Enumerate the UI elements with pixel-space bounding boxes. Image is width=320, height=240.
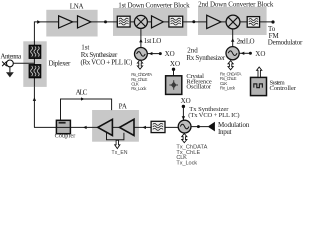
arrow right ALC: [81, 97, 85, 100]
junction dot after LNA: [104, 20, 107, 23]
svg-text:Rx_Lock: Rx_Lock: [131, 86, 147, 91]
arrow into LNA: [37, 20, 40, 24]
node dot XO crystal top: [172, 68, 175, 71]
2nd Down Converter Block box: [198, 7, 267, 35]
LNA block box: [46, 10, 97, 37]
arrow left into PA: [142, 126, 146, 129]
2nd Rx synthesizer VCO: [226, 47, 239, 60]
svg-text:Antenna: Antenna: [0, 52, 22, 60]
filter F2 1st converter output: [169, 16, 183, 27]
diplexer filter lower: [29, 65, 41, 78]
PA block box: [92, 110, 139, 142]
svg-text:Oscillator: Oscillator: [186, 84, 211, 91]
filter F3 2nd converter output: [247, 17, 259, 28]
coupler: [56, 120, 70, 133]
signal labels 1st Rx synth: [131, 72, 153, 91]
arrow up Tx into diplexer: [33, 97, 36, 101]
svg-text:XO: XO: [181, 97, 191, 105]
PA amplifier stage 1: [98, 119, 113, 135]
svg-text:(Tx VCO + PLL IC): (Tx VCO + PLL IC): [188, 112, 239, 119]
wire: 2nd LO mixer to synth: [232, 29, 234, 47]
wire: Tx VCO to modulation input: [191, 126, 208, 128]
svg-text:(Rx VCO + PLL IC): (Rx VCO + PLL IC): [81, 59, 134, 67]
wire: Rx main line diplexer-top to demodulator: [34, 22, 273, 42]
svg-text:LNA: LNA: [70, 3, 84, 11]
svg-text:PA: PA: [119, 103, 127, 111]
filter F1 1st converter input: [117, 16, 130, 27]
svg-text:Input: Input: [218, 128, 232, 136]
arrow left XO into 1st synth: [149, 52, 153, 55]
wire: XO stub above crystal: [173, 70, 175, 76]
node dot XO 2nd synth: [249, 52, 252, 55]
system controller box: [251, 77, 267, 95]
open double arrow under Tx synth: [182, 134, 187, 143]
svg-text:XO: XO: [165, 50, 175, 58]
Diplexer block box: [23, 41, 46, 87]
arrow left XO into 2nd synth: [241, 52, 245, 55]
wire: PA bias loop: [107, 132, 124, 140]
svg-text:Tx_Lock: Tx_Lock: [176, 161, 197, 166]
mixer 1st converter: [134, 15, 147, 28]
amplifier LNA stage 1: [59, 16, 73, 28]
PA amplifier stage 2: [120, 119, 135, 135]
wire: XO stub of 1st Rx synthesizer: [147, 53, 160, 55]
svg-text:1st LO: 1st LO: [144, 37, 162, 45]
svg-text:Coupler: Coupler: [55, 133, 76, 139]
diplexer filter upper: [29, 45, 41, 58]
wire: XO stub into Tx synthesizer: [182, 107, 184, 121]
wire: Tx vertical coupler to diplexer: [33, 87, 35, 128]
svg-text:2nd LO: 2nd LO: [237, 37, 255, 45]
arrow up 1st LO: [139, 39, 142, 43]
mixer 2nd converter: [226, 15, 240, 29]
amplifier 2nd converter: [207, 15, 221, 28]
junction dot after 1st block: [192, 20, 195, 23]
wire: antenna to diplexer: [13, 62, 34, 64]
signal labels 2nd Rx synth: [220, 72, 243, 91]
svg-text:2nd Down Converter Block: 2nd Down Converter Block: [198, 0, 274, 8]
svg-text:Rx Synthesizer: Rx Synthesizer: [186, 54, 225, 62]
svg-text:1st Down Converter Block: 1st Down Converter Block: [118, 1, 190, 9]
svg-text:XO: XO: [170, 60, 180, 68]
signal labels Tx synth: [176, 144, 207, 166]
antenna X feed: [2, 62, 7, 67]
svg-text:Controller: Controller: [270, 85, 297, 92]
wire: ALC feedback coupler to PA: [61, 99, 112, 120]
svg-text:Rx_Lock: Rx_Lock: [220, 86, 236, 91]
svg-text:Diplexer: Diplexer: [49, 60, 71, 68]
1st Down Converter Block box: [113, 8, 187, 36]
open up arrow above system controller: [257, 67, 262, 77]
arrow left coupler direction: [83, 126, 87, 129]
antenna circle: [6, 60, 13, 67]
svg-text:Tx_EN: Tx_EN: [112, 150, 128, 156]
amplifier 1st converter: [152, 16, 164, 28]
arrow up 2nd LO: [231, 38, 234, 42]
open down arrow Tx_EN: [115, 140, 120, 148]
node dot to FM demodulator: [271, 20, 274, 23]
arrow down XO into Tx synth: [182, 116, 185, 120]
open double arrow under 1st synth: [137, 60, 142, 69]
svg-text:ALC: ALC: [76, 89, 88, 97]
svg-text:Demodulator: Demodulator: [268, 38, 303, 46]
svg-text:XO: XO: [255, 50, 265, 58]
node dot modulation line: [197, 125, 200, 128]
open double arrow under 2nd synth: [228, 61, 233, 70]
1st Rx synthesizer VCO: [135, 48, 148, 61]
Tx VCO: [178, 120, 191, 133]
modulation input arrow: [208, 122, 215, 132]
crystal reference oscillator box: [166, 76, 182, 95]
wire: diplexer vertical through filters: [33, 41, 35, 87]
Tx filter: [151, 121, 165, 132]
antenna ground stem: [9, 67, 11, 73]
wire: XO stub of 2nd Rx synthesizer: [239, 52, 250, 54]
wire: Tx main line: [34, 126, 178, 128]
node dot XO Tx synth: [182, 105, 185, 108]
wire: 1st LO mixer to synth: [140, 28, 142, 48]
antenna ground triangle: [6, 72, 14, 77]
node dot XO 1st synth: [159, 52, 162, 55]
amplifier LNA stage 2: [78, 16, 91, 28]
